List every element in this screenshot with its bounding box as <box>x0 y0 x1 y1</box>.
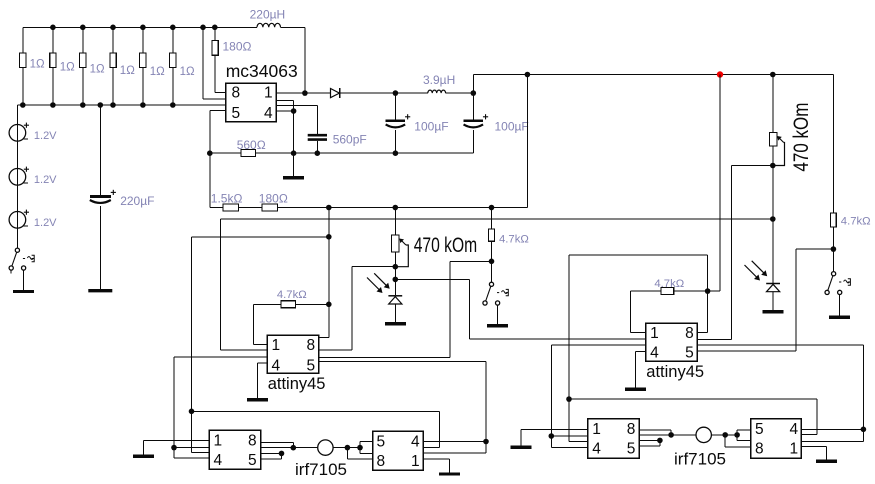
svg-text:4: 4 <box>411 434 420 451</box>
pin 8 <box>627 421 636 438</box>
svg-text:180Ω: 180Ω <box>223 40 252 54</box>
pin 1 <box>650 325 659 342</box>
ic U2 attiny45 <box>267 335 325 393</box>
svg-text:180Ω: 180Ω <box>259 191 288 205</box>
wire top rail <box>473 75 833 94</box>
junction <box>291 108 297 114</box>
pin 1 <box>592 421 601 438</box>
battery cell B3 1.2V <box>9 210 57 229</box>
svg-text:560Ω: 560Ω <box>237 138 266 152</box>
wire g5 <box>143 440 209 442</box>
wire lamp2 right <box>711 434 737 436</box>
junction <box>171 445 177 451</box>
inductor L2 3.9&#181;H <box>423 73 455 93</box>
svg-text:attiny45: attiny45 <box>646 363 704 381</box>
wire pin5a <box>319 261 492 357</box>
wire u4a pin5 <box>261 453 282 458</box>
ic U5a irf7105 <box>588 419 639 459</box>
junction <box>170 25 176 31</box>
junction <box>657 438 663 444</box>
svg-text:4: 4 <box>592 440 601 457</box>
wire u5a pin5 <box>639 440 660 446</box>
wire u5a to lamp <box>639 434 696 436</box>
svg-text:100µF: 100µF <box>414 120 448 134</box>
svg-text:attiny45: attiny45 <box>268 375 326 393</box>
junction <box>861 427 867 433</box>
pin 8 <box>377 453 386 470</box>
svg-text:1Ω: 1Ω <box>120 65 135 77</box>
junction <box>393 264 399 270</box>
pin 4 <box>650 344 659 361</box>
svg-text:1: 1 <box>790 440 799 457</box>
ground G8 <box>829 295 850 318</box>
switch S0 <box>9 248 34 274</box>
battery cell B2 1.2V <box>9 167 57 186</box>
junction <box>212 25 218 31</box>
wire top bus <box>23 27 257 53</box>
junction <box>393 90 399 96</box>
svg-text:5: 5 <box>755 421 764 438</box>
svg-text:1Ω: 1Ω <box>60 61 75 73</box>
lamp LA1 <box>295 440 347 479</box>
svg-text:5: 5 <box>627 440 636 457</box>
pin 5 <box>232 105 241 122</box>
wire pot1 bottom <box>394 252 396 295</box>
svg-text:1.2V: 1.2V <box>34 217 57 229</box>
junction <box>483 439 489 445</box>
junction <box>489 259 495 265</box>
junction <box>831 246 837 252</box>
wire u5b pin5 in <box>737 430 751 441</box>
pin 4 <box>592 440 601 457</box>
junction <box>170 102 176 108</box>
junction <box>189 409 195 415</box>
capacitor C2 560pF <box>308 133 367 147</box>
resistor R1a 1&#937; <box>20 53 45 105</box>
pin 8 <box>755 440 764 457</box>
wire sense line <box>220 219 773 350</box>
resistor R1f 1&#937; <box>170 27 195 105</box>
svg-text:8: 8 <box>248 433 257 450</box>
wire battery rail <box>16 105 18 248</box>
pin 8 <box>307 337 316 354</box>
wire red drop <box>708 75 720 292</box>
node Vout red <box>717 71 723 77</box>
wire r7 to pin1 <box>254 304 268 344</box>
potentiometer P2 470 kOm <box>769 103 813 172</box>
svg-text:4: 4 <box>272 358 281 375</box>
svg-text:470 kOm: 470 kOm <box>414 234 478 257</box>
svg-text:1.5kΩ: 1.5kΩ <box>211 191 243 205</box>
pin 4 <box>411 434 420 451</box>
pin 8 <box>248 433 257 450</box>
svg-text:3.9µH: 3.9µH <box>423 73 455 87</box>
junction <box>207 150 213 156</box>
capacitor C3 100&#181;F <box>386 93 449 153</box>
wire 560 line <box>210 152 474 154</box>
wire pin4b gnd2 <box>636 351 646 353</box>
junction <box>140 25 146 31</box>
wire pin1b <box>220 349 267 351</box>
junction <box>668 432 674 438</box>
switch S1 <box>483 282 508 305</box>
wire gate2b in <box>551 436 588 448</box>
capacitor C1 220&#181;F <box>90 190 155 208</box>
wire pot2 bottom <box>772 146 774 283</box>
wire 220uF bottom <box>88 206 112 291</box>
svg-text:8: 8 <box>627 421 636 438</box>
svg-text:5: 5 <box>248 452 257 469</box>
resistor R1d 1&#937; <box>110 27 135 105</box>
wire u4a to lamp <box>261 447 318 449</box>
junction <box>302 90 308 96</box>
svg-text:4.7kΩ: 4.7kΩ <box>499 234 529 246</box>
photodiode PD1 <box>367 273 402 304</box>
wire r9 to pin1 <box>630 291 645 333</box>
wire u4a pin8 <box>261 442 294 447</box>
wire pin5b <box>319 362 486 442</box>
capacitor C4 100&#181;F <box>464 93 529 153</box>
wire g10 <box>521 428 588 430</box>
junction <box>705 288 711 294</box>
wire gate1 in <box>174 448 209 458</box>
junction <box>357 445 363 451</box>
svg-text:4.7kΩ: 4.7kΩ <box>277 289 307 301</box>
wire pin1 out <box>276 92 330 94</box>
wire rail drop <box>526 75 528 208</box>
ground G0 <box>13 270 34 291</box>
switch S2 <box>825 272 850 295</box>
svg-text:220µF: 220µF <box>120 194 154 208</box>
pin 4 <box>272 358 281 375</box>
wire pin8 chain <box>569 255 708 441</box>
pin 1 <box>411 453 420 470</box>
junction <box>279 451 285 457</box>
wire u5b pin1 <box>801 429 863 441</box>
pin 1 <box>272 337 281 354</box>
ground G5 <box>133 441 154 457</box>
junction <box>80 25 86 31</box>
wire pin4b gnd <box>258 362 267 364</box>
ground G7 <box>763 292 784 312</box>
wire pot2 tap <box>731 166 773 340</box>
wire pd1 to mcu2 <box>395 279 645 339</box>
resistor R6 4.7k&#937; <box>489 208 529 283</box>
svg-text:mc34063: mc34063 <box>226 61 298 81</box>
svg-text:560pF: 560pF <box>333 133 367 147</box>
junction <box>345 445 351 451</box>
junction <box>471 90 477 96</box>
pin 1 <box>264 84 273 101</box>
junction <box>200 25 206 31</box>
svg-text:1: 1 <box>264 84 273 101</box>
ic U3 attiny45 <box>646 323 704 381</box>
junction <box>770 216 776 222</box>
ground G4 <box>247 363 268 400</box>
svg-text:8: 8 <box>685 325 694 342</box>
junction <box>770 163 776 169</box>
svg-text:1Ω: 1Ω <box>30 59 45 71</box>
junction <box>20 102 26 108</box>
wire lamp1 right <box>333 447 360 449</box>
wire u4b pin8 in <box>347 448 372 460</box>
potentiometer P1 470 kOm <box>392 234 478 267</box>
wire lower bus <box>17 104 225 106</box>
wire pin4a gate2 <box>551 345 645 448</box>
resistor R1b 1&#937; <box>50 27 75 105</box>
wire u5b pin8 in <box>725 435 750 447</box>
junction <box>393 150 399 156</box>
svg-text:1.2V: 1.2V <box>34 130 57 142</box>
junction <box>326 205 332 211</box>
battery cell B1 1.2V <box>9 123 57 142</box>
wire u4b pin5 in <box>360 441 373 453</box>
ground G1 <box>283 153 304 178</box>
wire pot1 top <box>394 208 396 236</box>
svg-text:1: 1 <box>272 337 281 354</box>
resistor R5 180&#937; <box>259 191 288 211</box>
wire pin4 a <box>276 101 293 154</box>
svg-text:4.7kΩ: 4.7kΩ <box>841 216 871 228</box>
wire pin4a gate <box>174 357 267 447</box>
pin 4 <box>264 105 273 122</box>
svg-text:8: 8 <box>307 337 316 354</box>
ic U1 mc34063 <box>226 61 298 122</box>
wire rail right <box>832 75 834 214</box>
inductor L1 220&#181;H <box>250 8 305 94</box>
wire u5b pin4 <box>801 428 863 430</box>
svg-text:irf7105: irf7105 <box>295 460 347 479</box>
svg-text:4: 4 <box>264 105 273 122</box>
svg-text:1: 1 <box>592 421 601 438</box>
wire pin5a2 <box>697 345 863 430</box>
lamp LA2 <box>674 427 726 468</box>
ground G10 <box>511 429 532 447</box>
svg-text:8: 8 <box>232 84 241 101</box>
wire gate2 u5a <box>569 441 588 443</box>
resistor R4 1.5k&#937; <box>211 191 243 211</box>
svg-text:1Ω: 1Ω <box>90 64 105 76</box>
junction <box>525 72 531 78</box>
junction <box>110 102 116 108</box>
ground G9 <box>625 352 646 390</box>
pin 5 <box>377 434 386 451</box>
junction <box>566 396 572 402</box>
pin 4 <box>790 421 799 438</box>
svg-text:4: 4 <box>790 421 799 438</box>
junction <box>50 25 56 31</box>
svg-text:8: 8 <box>755 440 764 457</box>
svg-text:irf7105: irf7105 <box>674 450 726 469</box>
wire u4b pin4 <box>423 441 486 443</box>
junction <box>734 432 740 438</box>
ground G6 <box>423 459 460 474</box>
pin 5 <box>755 421 764 438</box>
ic U4a irf7105 <box>209 430 261 469</box>
ground G11 <box>801 447 837 462</box>
pin 1 <box>214 433 223 450</box>
wire 180 to pin8 <box>215 92 226 94</box>
wire pin5 lower <box>210 111 226 154</box>
svg-text:220µH: 220µH <box>250 8 286 22</box>
svg-text:5: 5 <box>232 105 241 122</box>
junction <box>291 445 297 451</box>
resistor R9 4.7k&#937; <box>630 278 707 295</box>
junction <box>393 277 399 283</box>
svg-text:1.2V: 1.2V <box>34 174 57 186</box>
svg-text:1: 1 <box>650 325 659 342</box>
svg-text:8: 8 <box>377 453 386 470</box>
svg-text:4: 4 <box>214 452 223 469</box>
ground G2 <box>385 304 406 324</box>
pin 8 <box>685 325 694 342</box>
junction <box>140 102 146 108</box>
svg-text:5: 5 <box>307 358 316 375</box>
resistor R2 180&#937; <box>212 27 252 92</box>
pin 5 <box>685 344 694 361</box>
wire gate2 line <box>569 399 817 434</box>
wire 220uF top <box>99 105 101 195</box>
wire bus to pin8 <box>203 27 226 99</box>
svg-text:470 kOm: 470 kOm <box>790 103 813 172</box>
svg-text:1Ω: 1Ω <box>180 66 195 78</box>
svg-text:1: 1 <box>411 453 420 470</box>
wire u5a pin8 <box>639 430 671 435</box>
junction <box>291 150 297 156</box>
wire fb line <box>210 153 527 207</box>
junction <box>315 150 321 156</box>
junction <box>326 302 332 308</box>
resistor R8 4.7k&#937; <box>831 213 871 272</box>
wire pin4 b <box>276 106 317 134</box>
resistor R1e 1&#937; <box>140 27 165 105</box>
junction <box>80 102 86 108</box>
svg-text:5: 5 <box>377 434 386 451</box>
wire C2 bottom <box>316 141 318 153</box>
junction <box>98 102 104 108</box>
diode D1 <box>331 88 340 98</box>
svg-text:1Ω: 1Ω <box>150 66 165 78</box>
junction <box>50 102 56 108</box>
svg-text:1: 1 <box>214 433 223 450</box>
junction <box>110 25 116 31</box>
ic U4b irf7105 <box>373 431 424 470</box>
junction <box>489 205 495 211</box>
pin 4 <box>214 452 223 469</box>
pin 5 <box>248 452 257 469</box>
wire 4.7k chain <box>319 208 329 338</box>
resistor R3 560&#937; <box>237 138 266 157</box>
junction <box>722 432 728 438</box>
pin 5 <box>627 440 636 457</box>
resistor R7 4.7k&#937; <box>254 289 329 308</box>
svg-text:100µF: 100µF <box>495 120 529 134</box>
wire pot2 top <box>772 75 774 133</box>
svg-text:5: 5 <box>685 344 694 361</box>
pin 8 <box>232 84 241 101</box>
ic U5b irf7105 <box>751 419 802 459</box>
wire s2 tap <box>697 249 833 351</box>
wire pin8b <box>697 338 731 340</box>
svg-text:4: 4 <box>650 344 659 361</box>
wire gate1 line <box>192 237 440 453</box>
wire u4b pin1 <box>423 442 486 454</box>
junction <box>393 205 399 211</box>
wire L2 out <box>446 92 474 94</box>
photodiode PD2 <box>745 261 781 292</box>
pin 5 <box>307 358 316 375</box>
wire diode to L2 <box>338 92 428 94</box>
wire pot1 wiper net <box>319 267 396 350</box>
pin 1 <box>790 440 799 457</box>
junction <box>326 234 332 240</box>
svg-text:4.7kΩ: 4.7kΩ <box>654 278 684 290</box>
resistor R1c 1&#937; <box>80 27 105 105</box>
junction <box>770 72 776 78</box>
junction <box>549 433 555 439</box>
ground G3 <box>487 305 508 326</box>
